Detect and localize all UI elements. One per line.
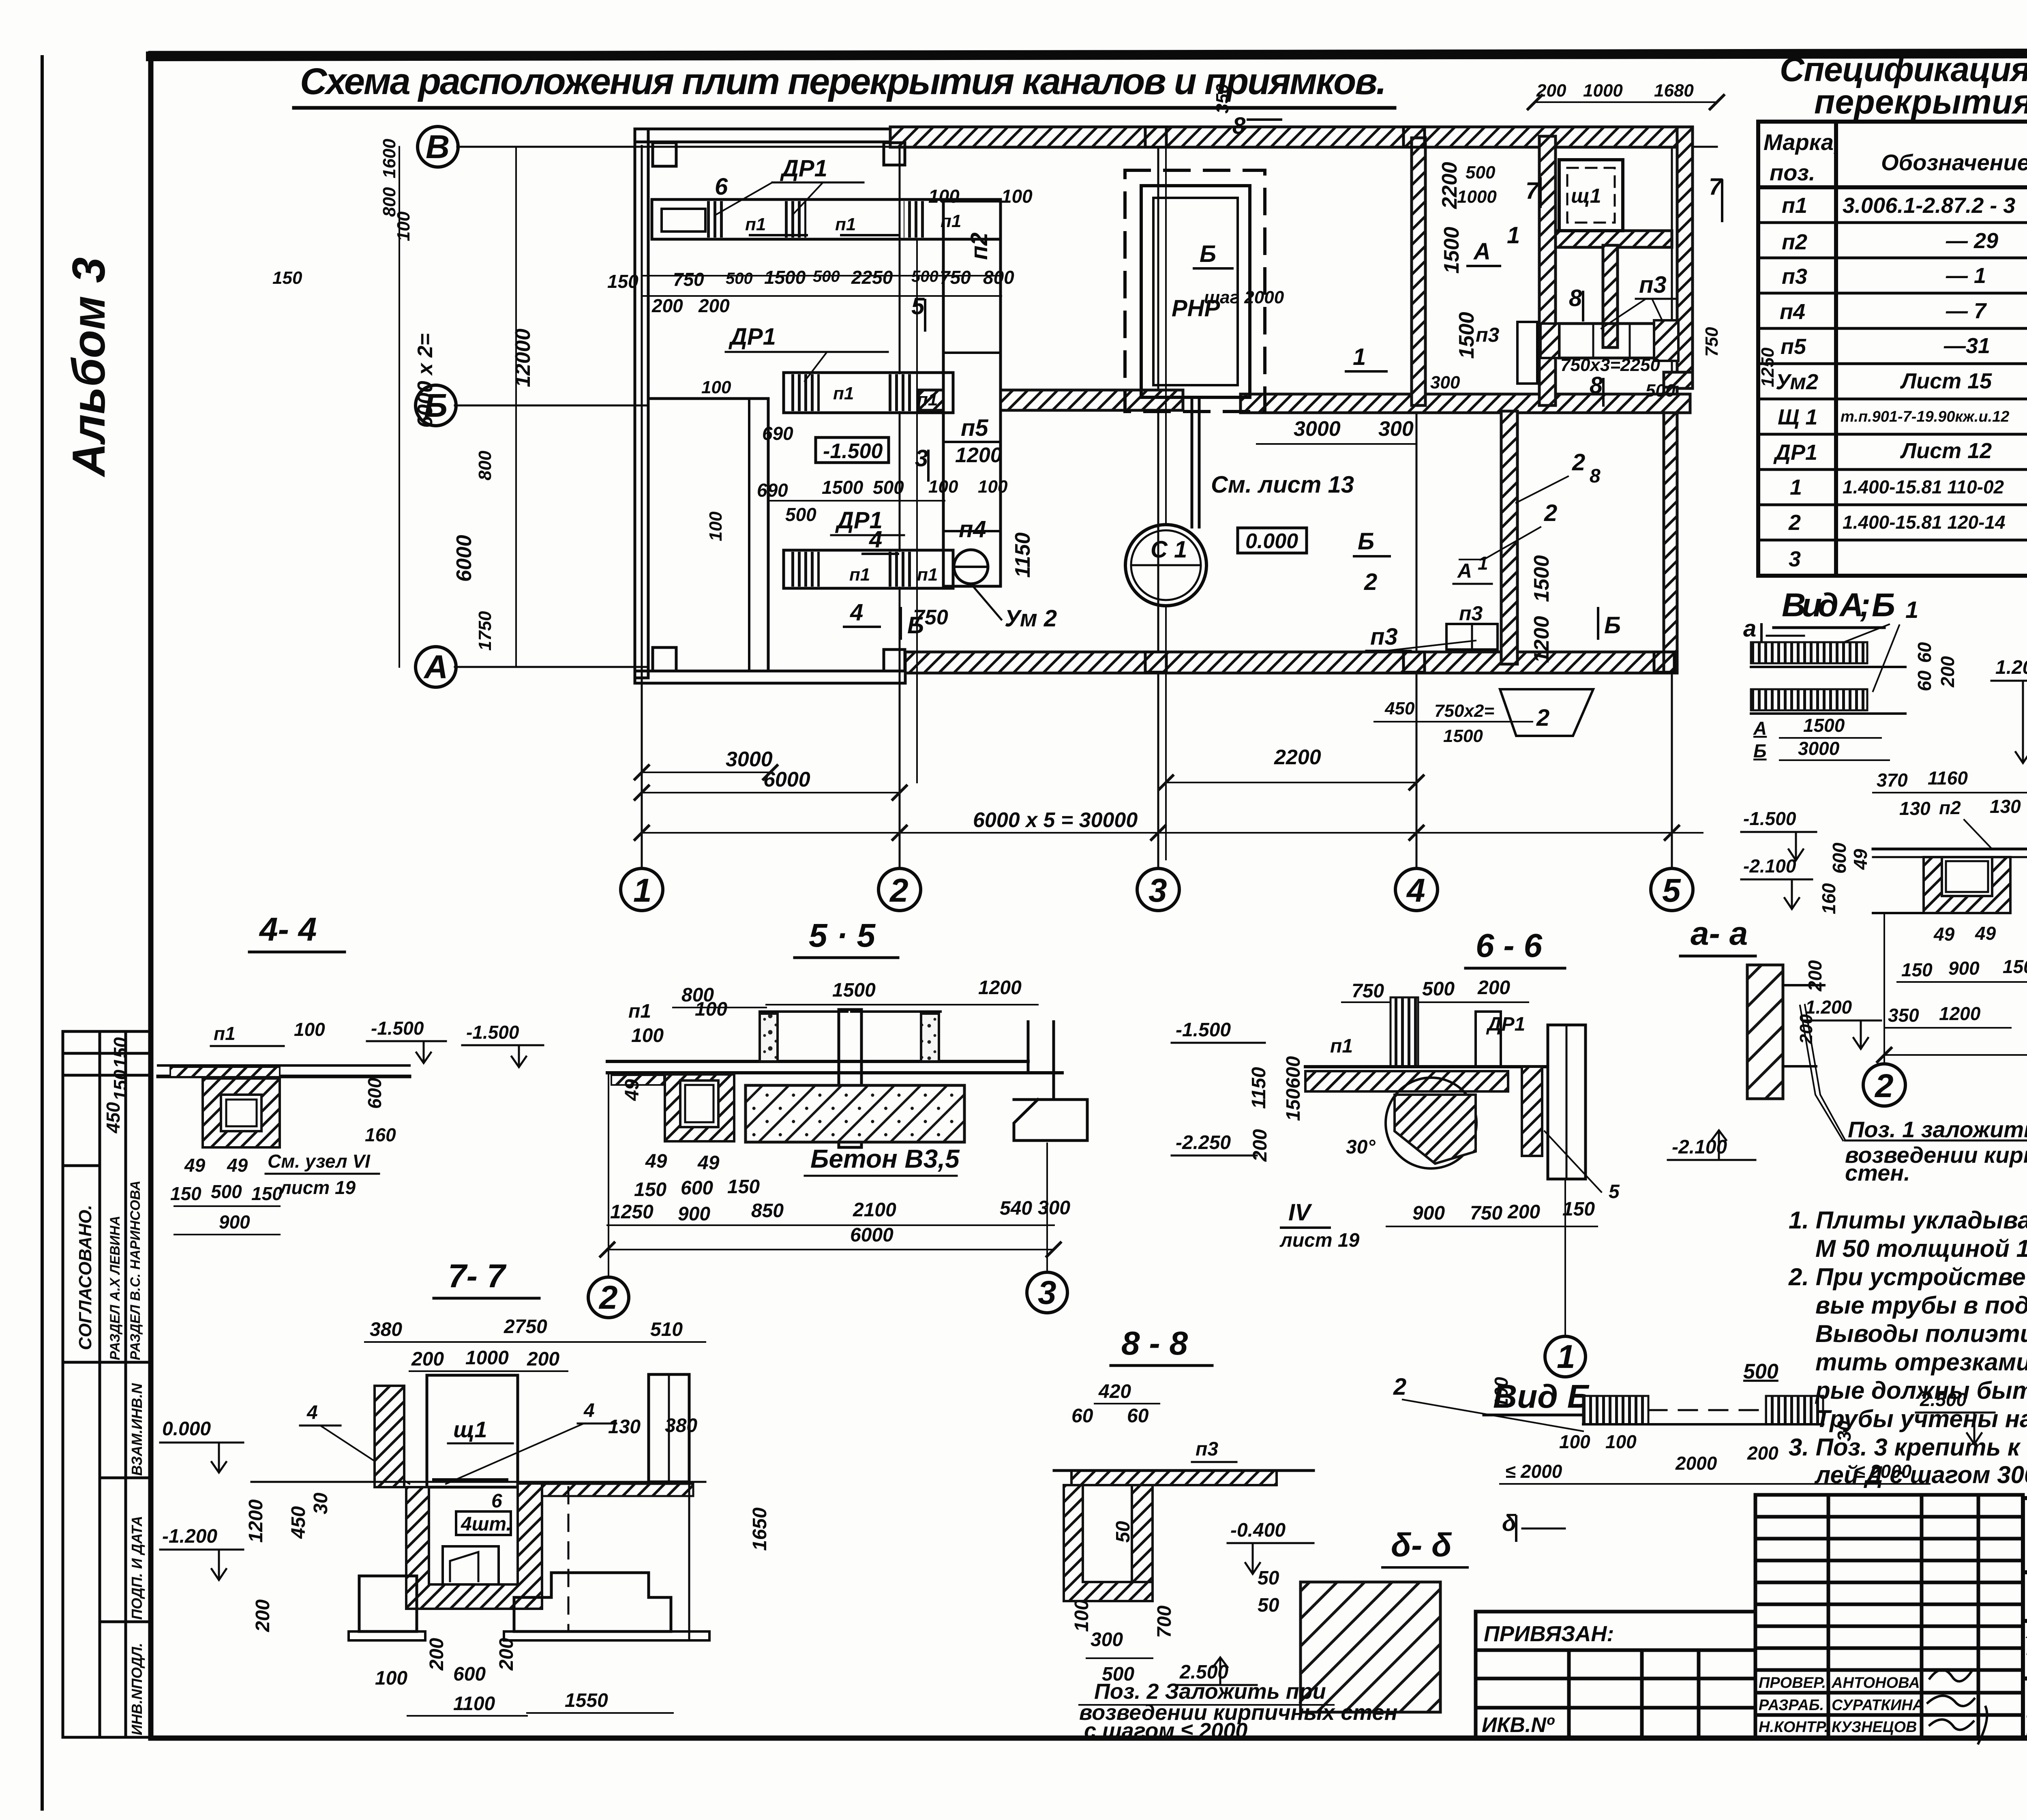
svg-text:п4: п4 (959, 516, 986, 542)
svg-text:2: 2 (1874, 1068, 1894, 1104)
svg-text:150: 150 (110, 1037, 131, 1068)
svg-text:100: 100 (1001, 186, 1033, 207)
svg-text:а- а: а- а (1691, 915, 1748, 952)
svg-text:4: 4 (583, 1400, 595, 1421)
pit drawing (1873, 848, 2027, 851)
svg-text:2250: 2250 (851, 267, 893, 288)
lower room left wall (1501, 411, 1517, 664)
top dimension row (1535, 101, 1717, 103)
svg-text:-1.500: -1.500 (1176, 1019, 1231, 1041)
Щ1 box (427, 1375, 518, 1487)
svg-text:370: 370 (1877, 770, 1908, 791)
svg-text:3. Поз. 3 крепить к стеново: 3. Поз. 3 крепить к стеновой панели при … (1789, 1434, 2027, 1461)
svg-text:Б: Б (1753, 740, 1767, 761)
svg-text:а: а (1743, 615, 1756, 642)
svg-text:100: 100 (701, 377, 731, 397)
svg-text:п1: п1 (1330, 1035, 1353, 1057)
svg-text:690: 690 (757, 480, 788, 501)
part B: left grid (1755, 1495, 2023, 1737)
svg-text:— 29: — 29 (1946, 229, 1998, 253)
svg-text:900: 900 (1948, 958, 1980, 979)
svg-text:500: 500 (1646, 381, 1676, 401)
svg-text:1500: 1500 (822, 477, 864, 498)
concrete block (746, 1085, 964, 1142)
top slab hatched right part (523, 1484, 693, 1496)
svg-text:ПРИВЯЗАН:: ПРИВЯЗАН: (1484, 1622, 1614, 1646)
svg-text:лист 19: лист 19 (279, 1177, 356, 1198)
svg-text:1500: 1500 (1803, 715, 1845, 736)
П3 vertical plate (1517, 322, 1537, 384)
svg-text:500: 500 (785, 504, 816, 525)
svg-text:-1.500: -1.500 (466, 1022, 519, 1043)
svg-text:160: 160 (1818, 883, 1839, 914)
С1 pipe to РНР (1191, 397, 1193, 527)
left dimension chain (399, 147, 400, 667)
svg-text:200: 200 (252, 1599, 274, 1632)
table header (1763, 127, 2027, 185)
svg-text:Б: Б (1200, 241, 1216, 267)
left pedestal (359, 1576, 417, 1631)
svg-text:1000: 1000 (465, 1347, 509, 1369)
svg-text:750х2=: 750х2= (1434, 701, 1494, 721)
svg-text:вые трубы в подготовке пола: вые трубы в подготовке пола низ на отм. … (1815, 1292, 2027, 1319)
window in canal (662, 209, 705, 232)
svg-text:130: 130 (1990, 796, 2021, 817)
slab hatch thin (170, 1067, 280, 1077)
frame top thick edge (151, 53, 2027, 56)
wall stubs above slab (760, 1014, 778, 1061)
svg-text:150: 150 (110, 1070, 131, 1101)
svg-text:п3: п3 (1370, 624, 1398, 650)
svg-text:100: 100 (928, 477, 958, 497)
svg-text:200: 200 (1937, 656, 1958, 688)
dashed center (568, 1487, 570, 1630)
svg-text:6: 6 (715, 174, 728, 200)
grid circle 3 (5-5) (1027, 1272, 1067, 1313)
svg-text:2200: 2200 (1274, 746, 1321, 769)
svg-text:30: 30 (310, 1492, 332, 1514)
svg-text:1500: 1500 (832, 980, 876, 1001)
left pit (665, 1074, 734, 1141)
svg-text:— 1: — 1 (1946, 264, 1986, 288)
8-8 column (1132, 1485, 1153, 1582)
svg-text:п1: п1 (214, 1023, 236, 1044)
svg-text:СУРАТКИНА: СУРАТКИНА (1832, 1697, 1924, 1714)
svg-text:150: 150 (272, 268, 302, 288)
svg-text:150: 150 (170, 1183, 201, 1204)
svg-text:6000 х 2=: 6000 х 2= (414, 333, 437, 428)
svg-text:2100: 2100 (853, 1199, 896, 1221)
svg-text:2. При устройстве чистого пола: 2. При устройстве чистого пола заложить … (1788, 1263, 2027, 1291)
svg-text:3: 3 (1789, 547, 1801, 571)
svg-text:300: 300 (1430, 373, 1460, 392)
П2 pit detail (left of 3-3) (1741, 767, 2027, 1049)
svg-text:2: 2 (598, 1279, 618, 1316)
svg-text:щ1: щ1 (453, 1417, 487, 1442)
svg-text:1100: 1100 (453, 1693, 495, 1715)
interior partition vertical (1412, 138, 1425, 405)
6-6 slab (1305, 1065, 1545, 1068)
svg-text:850: 850 (751, 1200, 784, 1222)
svg-text:8: 8 (1232, 113, 1246, 139)
Щ1 switchboard (1559, 160, 1623, 231)
svg-text:п5: п5 (1781, 334, 1806, 359)
6-6 grate stub (1391, 997, 1418, 1067)
svg-text:С 1: С 1 (1151, 536, 1187, 563)
svg-text:8: 8 (1590, 372, 1603, 399)
svg-text:5: 5 (1609, 1181, 1620, 1203)
svg-text:п1: п1 (917, 565, 938, 585)
bottom canal (784, 550, 953, 588)
slab line (158, 1075, 409, 1078)
svg-text:А: А (1457, 560, 1472, 582)
right wall (1522, 1067, 1542, 1156)
svg-text:4: 4 (306, 1402, 318, 1423)
svg-text:900: 900 (678, 1203, 710, 1225)
part A: привязан table (1476, 1612, 1755, 1737)
svg-text:49: 49 (697, 1152, 720, 1174)
left upper hatched column (375, 1386, 404, 1487)
svg-text:1200: 1200 (1939, 1003, 1981, 1024)
svg-text:500: 500 (1743, 1360, 1778, 1383)
svg-text:6000: 6000 (452, 535, 476, 582)
right wall notch connector (1664, 372, 1693, 388)
right footing steps (514, 1573, 671, 1631)
svg-text:Поз. 2 Заложить при: Поз. 2 Заложить при (1094, 1679, 1326, 1704)
svg-text:100: 100 (928, 186, 960, 207)
middle wall band on axis Б (right span) (1241, 394, 1690, 413)
svg-text:2: 2 (1393, 1374, 1406, 1400)
svg-text:ДР1: ДР1 (728, 324, 776, 350)
svg-text:750: 750 (673, 269, 704, 290)
svg-text:600: 600 (1829, 842, 1850, 874)
grid circle Б (416, 385, 456, 426)
svg-text:ИКВ.Nº: ИКВ.Nº (1482, 1713, 1555, 1737)
comb bar A (1751, 642, 1867, 663)
svg-text:750: 750 (1352, 980, 1384, 1002)
grid circle 2 (879, 868, 921, 911)
svg-text:с шагом ≤ 2000: с шагом ≤ 2000 (1084, 1719, 1247, 1743)
svg-text:п1: п1 (1782, 193, 1807, 218)
grid circle В (418, 126, 458, 167)
С1 centerline down (1165, 606, 1167, 860)
svg-text:М 50 толщиной 10 мм.: М 50 толщиной 10 мм. (1815, 1235, 2027, 1262)
comb bar Б (1751, 689, 1867, 710)
svg-text:100: 100 (394, 211, 414, 241)
svg-text:6000: 6000 (850, 1224, 894, 1246)
svg-text:≤ 2000: ≤ 2000 (1505, 1461, 1562, 1482)
svg-text:49: 49 (1933, 924, 1955, 945)
svg-text:-1.500: -1.500 (371, 1018, 424, 1039)
svg-text:1250: 1250 (1758, 347, 1778, 387)
svg-text:4шт.: 4шт. (461, 1513, 512, 1535)
svg-text:перекрытия каналов и приямков.: перекрытия каналов и приямков. (1814, 83, 2027, 121)
svg-text:2: 2 (1364, 569, 1377, 595)
svg-text:300: 300 (1038, 1197, 1070, 1219)
svg-text:450: 450 (103, 1102, 124, 1134)
svg-text:4: 4 (869, 526, 882, 553)
svg-text:δ- δ: δ- δ (1391, 1527, 1452, 1564)
svg-text:750: 750 (940, 267, 971, 288)
svg-text:49: 49 (645, 1151, 667, 1172)
svg-text:150: 150 (1562, 1198, 1595, 1220)
svg-text:420: 420 (1098, 1381, 1131, 1402)
grid circle 2 (5-5) (588, 1277, 629, 1318)
svg-text:п4: п4 (1780, 300, 1805, 324)
svg-text:п3: п3 (1639, 272, 1667, 298)
svg-text:100: 100 (294, 1019, 325, 1040)
svg-text:800: 800 (983, 267, 1014, 288)
svg-text:1: 1 (633, 872, 652, 909)
0.000 level line (251, 1481, 705, 1483)
svg-text:1: 1 (1790, 475, 1802, 499)
drain Ум2 circle (954, 550, 988, 584)
svg-text:1: 1 (1557, 1338, 1575, 1375)
dims 3-3 (1884, 648, 2027, 1055)
svg-text:750: 750 (1702, 327, 1722, 357)
svg-text:8 - 8: 8 - 8 (1121, 1325, 1188, 1362)
svg-text:лист 19: лист 19 (1279, 1230, 1360, 1251)
svg-text:См. узел VI: См. узел VI (268, 1151, 371, 1172)
svg-text:60: 60 (1071, 1405, 1093, 1427)
svg-text:5 · 5: 5 · 5 (809, 917, 876, 954)
svg-text:6000 х 5 = 30000: 6000 х 5 = 30000 (973, 808, 1138, 832)
left outer wall (635, 129, 648, 678)
РНР dashed enclosure (1125, 170, 1265, 412)
svg-text:ИНВ.NПОДЛ.: ИНВ.NПОДЛ. (129, 1643, 145, 1735)
svg-text:Ум 2: Ум 2 (1005, 605, 1057, 632)
svg-text:Альбом 3: Альбом 3 (63, 257, 115, 478)
svg-text:100: 100 (706, 511, 726, 541)
svg-text:2000: 2000 (1675, 1453, 1717, 1474)
svg-text:IV: IV (1288, 1199, 1312, 1226)
svg-text:рые должны быть выведены в: рые должны быть выведены выше пола на 20… (1815, 1377, 2027, 1404)
svg-text:ПРОВЕР.: ПРОВЕР. (1759, 1674, 1826, 1691)
svg-text:1200: 1200 (245, 1499, 267, 1543)
svg-text:3: 3 (1148, 872, 1167, 909)
svg-text:2: 2 (889, 872, 909, 909)
grate ДР1 (782, 201, 806, 238)
signatures (1928, 1670, 1987, 1743)
svg-text:150: 150 (634, 1179, 666, 1200)
svg-text:1500: 1500 (1443, 726, 1483, 746)
svg-text:150: 150 (2003, 956, 2027, 977)
svg-text:100: 100 (1605, 1431, 1637, 1452)
svg-text:1200: 1200 (955, 444, 1002, 467)
svg-text:200: 200 (1747, 1443, 1778, 1464)
svg-text:1200: 1200 (1530, 616, 1553, 663)
svg-text:1: 1 (1353, 344, 1366, 370)
svg-text:130: 130 (1899, 798, 1931, 819)
svg-text:30°: 30° (1346, 1136, 1376, 1158)
dim ticks (600, 95, 2027, 1256)
svg-text:200: 200 (1507, 1201, 1540, 1223)
svg-text:Лист 12: Лист 12 (1900, 439, 1992, 463)
svg-text:В: В (426, 129, 450, 165)
svg-text:200: 200 (426, 1638, 448, 1671)
svg-text:1: 1 (1905, 597, 1918, 623)
leaders (1545, 1131, 1601, 1192)
svg-text:150: 150 (251, 1183, 283, 1204)
svg-text:510: 510 (650, 1319, 683, 1340)
svg-text:п3: п3 (1196, 1438, 1218, 1460)
-1.500 boxed level (816, 437, 889, 463)
svg-text:1: 1 (1507, 222, 1520, 249)
table rows (1773, 193, 2027, 574)
svg-text:ДР1: ДР1 (1486, 1014, 1525, 1035)
5-5 slab (607, 1060, 1028, 1063)
grate ДР1 (791, 374, 820, 411)
svg-text:0.000: 0.000 (162, 1418, 211, 1440)
svg-text:1500: 1500 (764, 267, 806, 288)
svg-text:ХЛОРАТОРНАЯ ДЛЯ ОБЕЗЗАРАЖИВАНИ: ХЛОРАТОРНАЯ ДЛЯ ОБЕЗЗАРАЖИВАНИЯ (2025, 1625, 2027, 1642)
grid circle 4 (1395, 868, 1438, 911)
svg-text:1600: 1600 (379, 139, 399, 178)
svg-text:п1: п1 (745, 214, 766, 234)
svg-text:350: 350 (1213, 84, 1232, 114)
svg-text:60: 60 (1914, 642, 1935, 663)
svg-text:-1.500: -1.500 (823, 439, 883, 463)
svg-text:п1: п1 (849, 565, 870, 585)
svg-text:690: 690 (762, 423, 793, 444)
svg-text:100: 100 (1071, 1599, 1093, 1632)
svg-text:ВЗАМ.ИНВ.N: ВЗАМ.ИНВ.N (129, 1383, 145, 1476)
top-left outer wall (635, 129, 894, 142)
svg-text:-1.500: -1.500 (1743, 808, 1796, 829)
right outer wall lower (1664, 387, 1677, 673)
svg-text:200: 200 (527, 1348, 559, 1370)
svg-text:700: 700 (1154, 1606, 1175, 1638)
svg-text:2: 2 (1536, 705, 1549, 731)
б-б detail hatched square (1301, 1582, 1440, 1712)
svg-text:ПОДП. И ДАТА: ПОДП. И ДАТА (129, 1516, 145, 1620)
middle wall band on axis Б (left span) (919, 390, 943, 410)
svg-text:А: А (1753, 718, 1767, 739)
svg-text:3: 3 (1038, 1274, 1056, 1311)
svg-text:600: 600 (453, 1664, 486, 1685)
svg-text:1150: 1150 (1248, 1067, 1270, 1109)
svg-text:п1: п1 (835, 214, 856, 234)
svg-text:2: 2 (1788, 510, 1801, 535)
svg-text:8: 8 (1569, 285, 1582, 311)
svg-text:200: 200 (411, 1348, 444, 1370)
svg-text:2: 2 (1544, 500, 1557, 526)
svg-text:100: 100 (978, 477, 1008, 497)
svg-text:150: 150 (607, 271, 639, 292)
svg-text:5: 5 (911, 293, 925, 319)
П3 plates row with hatch ends (1559, 324, 1672, 358)
svg-text:—31: —31 (1943, 334, 1990, 358)
svg-text:тить отрезками тонкостенных с: тить отрезками тонкостенных стальных тру… (1815, 1348, 2027, 1376)
svg-text:100: 100 (695, 999, 727, 1020)
grid circle А (416, 647, 456, 687)
svg-text:1150: 1150 (1011, 532, 1035, 578)
svg-text:500: 500 (873, 477, 904, 498)
svg-text:4- 4: 4- 4 (259, 911, 317, 948)
svg-text:500: 500 (1422, 978, 1455, 1000)
svg-text:АНТОНОВА: АНТОНОВА (1831, 1674, 1920, 1691)
svg-text:1650: 1650 (749, 1507, 771, 1551)
svg-text:-2.250: -2.250 (1176, 1132, 1231, 1153)
svg-text:п2: п2 (1782, 230, 1807, 254)
svg-text:Выводы полиэтиленовых труб и: Выводы полиэтиленовых труб из подливок п… (1815, 1320, 2027, 1347)
svg-text:1680: 1680 (1654, 81, 1694, 101)
svg-text:δ: δ (1502, 1510, 1517, 1536)
svg-text:900: 900 (219, 1211, 250, 1233)
grid circle 1 (6-6) (1545, 1336, 1586, 1377)
П3 plate lower left (1446, 624, 1498, 650)
svg-text:Б: Б (1358, 528, 1374, 555)
svg-text:п3: п3 (1782, 264, 1807, 289)
svg-text:100: 100 (631, 1025, 664, 1046)
svg-text:1750: 1750 (475, 611, 495, 651)
svg-text:п2: п2 (1939, 797, 1961, 818)
svg-text:КУЗНЕЦОВ: КУЗНЕЦОВ (1832, 1719, 1917, 1736)
svg-text:п1: п1 (917, 390, 938, 409)
svg-text:Марка,: Марка, (1763, 129, 1840, 155)
svg-text:Бетон В3,5: Бетон В3,5 (810, 1144, 960, 1173)
pit U-shape (406, 1483, 542, 1609)
grid circle 2 (3-3) (1863, 1064, 1905, 1106)
svg-text:6 - 6: 6 - 6 (1476, 927, 1543, 964)
svg-text:50: 50 (1258, 1567, 1279, 1589)
svg-text:540: 540 (1000, 1198, 1032, 1219)
svg-text:130: 130 (608, 1416, 641, 1438)
svg-text:200: 200 (496, 1638, 517, 1671)
svg-text:100: 100 (375, 1668, 407, 1689)
partition band under Щ1 (1556, 231, 1672, 247)
svg-text:лей Д с шагом 300 мм.: лей Д с шагом 300 мм. (1814, 1461, 2027, 1488)
svg-text:1250: 1250 (610, 1201, 654, 1223)
svg-text:100: 100 (1559, 1431, 1590, 1452)
svg-text:49: 49 (227, 1155, 248, 1176)
Поз.2 note (1079, 1679, 1397, 1743)
svg-text:щ1: щ1 (1571, 184, 1601, 207)
svg-text:380: 380 (370, 1319, 402, 1340)
8-8 slab (1071, 1471, 1277, 1485)
svg-text:800: 800 (475, 450, 495, 480)
right wall + footing (1027, 1022, 1030, 1073)
svg-text:1.400-15.81 110-02: 1.400-15.81 110-02 (1843, 476, 2004, 497)
svg-text:Б: Б (1604, 612, 1621, 639)
left room walls (648, 399, 768, 671)
pit hatched (203, 1078, 280, 1147)
svg-text:600: 600 (1283, 1056, 1304, 1089)
svg-text:3000: 3000 (1798, 738, 1840, 759)
svg-text:7- 7: 7- 7 (448, 1258, 507, 1295)
svg-text:1000: 1000 (1583, 81, 1623, 101)
bottom dimension lines (642, 772, 770, 773)
svg-text:1200: 1200 (978, 977, 1022, 999)
svg-text:п3: п3 (1476, 324, 1500, 346)
8-8 pit (1064, 1485, 1153, 1601)
svg-text:Лист 15: Лист 15 (1900, 369, 1992, 393)
svg-text:1160: 1160 (1928, 767, 1968, 789)
svg-text:300: 300 (1378, 417, 1414, 441)
svg-text:150: 150 (1901, 959, 1933, 980)
svg-text:п3: п3 (1459, 602, 1483, 625)
svg-text:7: 7 (1709, 174, 1723, 200)
svg-text:49: 49 (1850, 849, 1871, 870)
svg-text:1.200: 1.200 (1805, 997, 1852, 1018)
svg-text:900: 900 (1412, 1203, 1445, 1224)
svg-text:2750: 2750 (504, 1316, 547, 1338)
svg-text:1.400-15.81 120-14: 1.400-15.81 120-14 (1843, 512, 2006, 533)
svg-text:1500: 1500 (1530, 555, 1553, 602)
masonry block (1747, 965, 1783, 1099)
vertical canal on axis 2 (943, 201, 1001, 586)
svg-text:поз.: поз. (1770, 160, 1815, 185)
